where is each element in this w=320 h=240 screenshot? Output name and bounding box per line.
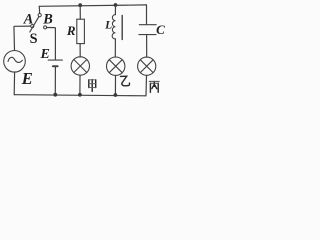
svg-text:E: E xyxy=(40,47,50,62)
svg-text:A: A xyxy=(23,11,34,27)
contact B xyxy=(44,26,47,29)
contact A xyxy=(31,25,34,28)
label bing (CJK 丙) verticals xyxy=(150,82,158,93)
wire capacitor to lamp bing xyxy=(146,35,148,57)
capacitor C top plate xyxy=(139,24,156,26)
capacitor C bottom plate xyxy=(139,34,156,36)
wire resistor to lamp jia xyxy=(79,44,81,57)
svg-text:S: S xyxy=(30,31,38,47)
junction top rail R branch xyxy=(78,3,82,7)
lamp yi cross xyxy=(109,60,122,73)
svg-text:R: R xyxy=(66,23,76,38)
AC source E circle xyxy=(4,51,26,73)
label jia (CJK 甲) verticals xyxy=(89,80,96,92)
wire lamp yi to bottom rail xyxy=(114,75,116,95)
svg-text:B: B xyxy=(42,11,53,27)
junction lamp yi bottom xyxy=(114,93,118,97)
wire bottom rail xyxy=(14,95,146,96)
wire top rail right corner down to capacitor xyxy=(145,5,147,24)
lamp bing circle xyxy=(138,57,156,75)
wire AC source to bottom rail xyxy=(13,72,16,95)
battery E long plate xyxy=(48,59,62,61)
svg-text:E: E xyxy=(21,69,33,88)
switch S lever xyxy=(30,17,39,32)
svg-text:C: C xyxy=(156,22,165,37)
svg-text:L: L xyxy=(104,20,112,32)
lamp jia cross xyxy=(74,60,87,73)
lamp yi circle xyxy=(107,57,125,75)
lamp bing cross xyxy=(140,60,153,73)
wire lamp bing to bottom right corner xyxy=(145,75,146,96)
junction top rail L branch xyxy=(114,3,118,7)
lamp jia circle xyxy=(71,57,89,75)
junction lamp jia bottom xyxy=(78,93,82,97)
switch S pivot xyxy=(38,14,41,17)
wire top rail xyxy=(39,5,146,6)
wire lamp jia to bottom rail xyxy=(79,75,81,95)
battery E short plate xyxy=(53,65,58,67)
wire switch drop from top rail xyxy=(38,6,40,13)
wire top rail to inductor xyxy=(114,5,116,15)
junction battery bottom xyxy=(53,93,57,97)
inductor L coil xyxy=(112,15,115,39)
wire contact B right and down to battery xyxy=(47,28,56,60)
label jia (CJK 甲) horizontals xyxy=(89,80,96,88)
label bing (CJK 丙) horizontals xyxy=(149,81,159,83)
wire battery to bottom rail xyxy=(54,67,56,94)
resistor R body xyxy=(77,19,85,43)
wire contact A to left corner and down to source xyxy=(14,26,31,50)
label yi (CJK 乙) xyxy=(121,76,130,86)
wire top rail to resistor xyxy=(79,5,81,19)
wire inductor to lamp yi xyxy=(114,39,116,57)
inductor L core line xyxy=(121,16,123,40)
AC source sine wave xyxy=(8,57,22,62)
